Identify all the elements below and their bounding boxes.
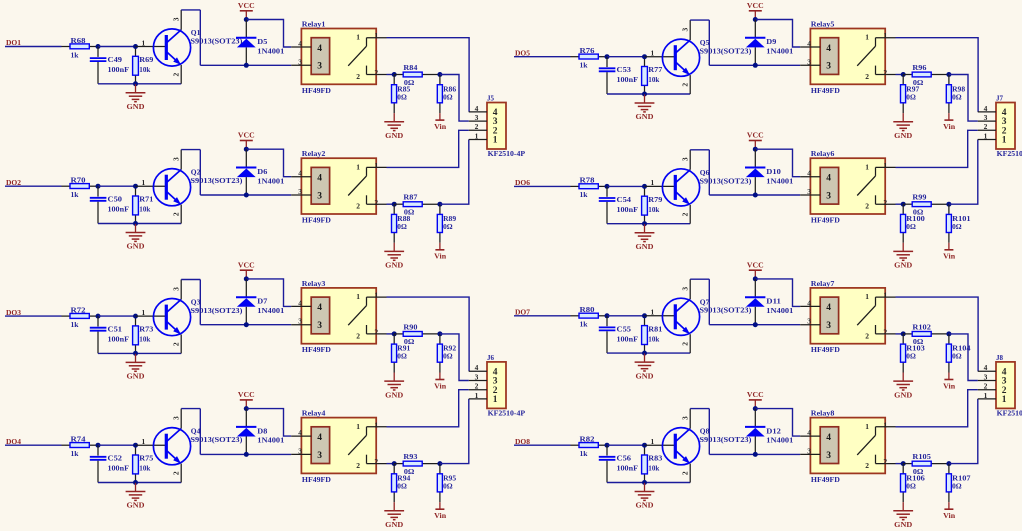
svg-text:D10: D10 (766, 167, 781, 176)
resistor R80 1k (571, 305, 608, 329)
wire Relay1 node B to J5 pin3 (440, 75, 469, 122)
svg-text:GND: GND (385, 131, 403, 140)
svg-text:3: 3 (317, 191, 322, 201)
relay switch blade of Relay8 (857, 435, 875, 455)
pin 3 of Relay8 (800, 446, 820, 455)
junction ground rail (133, 480, 138, 485)
pin 2 of Relay3 (contact) (356, 325, 386, 340)
wire collector of Q6 to relay coil (709, 194, 800, 196)
svg-text:R83: R83 (648, 454, 662, 463)
svg-text:0Ω: 0Ω (443, 222, 453, 231)
svg-text:S9013(SOT23): S9013(SOT23) (699, 306, 752, 315)
pin 2 of J6 (469, 382, 498, 396)
power Vin under R95 (434, 502, 446, 520)
pin 3 of Relay6 (800, 187, 820, 196)
svg-text:10k: 10k (648, 334, 660, 343)
svg-text:0Ω: 0Ω (397, 92, 407, 101)
relay switch blade of Relay3 (348, 306, 366, 326)
junction diode anode node (753, 193, 758, 198)
svg-text:3: 3 (317, 451, 322, 461)
svg-text:D6: D6 (257, 167, 267, 176)
ground under R94 (384, 502, 404, 529)
svg-text:3: 3 (807, 187, 811, 196)
junction node A (392, 331, 397, 336)
svg-text:2: 2 (883, 328, 887, 337)
wire to base node (607, 185, 645, 187)
svg-text:D12: D12 (766, 426, 781, 435)
svg-text:3: 3 (475, 113, 479, 122)
svg-text:1k: 1k (71, 320, 80, 329)
svg-text:HF49FD: HF49FD (302, 216, 331, 225)
svg-text:VCC: VCC (747, 131, 764, 140)
wire Relay7 pin1 to J8 pin4 (896, 297, 979, 371)
pin 1 of Q6 (base) (645, 178, 676, 187)
resistor R101 0R (946, 204, 971, 243)
pin 2 of Q8 (emitter) (680, 464, 690, 483)
svg-text:100nF: 100nF (617, 75, 639, 84)
svg-text:3: 3 (680, 416, 689, 420)
svg-text:C54: C54 (617, 195, 632, 204)
wire collector of Q7 to relay coil (709, 324, 800, 326)
junction base node (133, 443, 138, 448)
capacitor C56 100nF (599, 445, 639, 482)
svg-text:R73: R73 (139, 325, 153, 334)
wire collector vertical of Q7 (708, 279, 710, 325)
svg-text:VCC: VCC (747, 1, 764, 10)
svg-text:2: 2 (356, 202, 360, 211)
svg-text:D11: D11 (766, 297, 781, 306)
relay Relay3 HF49FD (301, 279, 376, 354)
pin 1 of J7 (978, 131, 1007, 145)
ground under R79 (635, 224, 655, 251)
svg-text:2: 2 (356, 461, 360, 470)
svg-text:VCC: VCC (238, 390, 255, 399)
pin 1 of Relay2 (contact) (356, 161, 386, 176)
svg-text:1: 1 (374, 291, 378, 300)
svg-text:1N4001: 1N4001 (766, 176, 793, 185)
svg-text:2: 2 (883, 68, 887, 77)
svg-text:HF49FD: HF49FD (302, 345, 331, 354)
svg-text:1: 1 (142, 308, 146, 317)
junction ground rail (133, 221, 138, 226)
svg-text:Relay1: Relay1 (302, 19, 326, 28)
svg-text:R72: R72 (71, 305, 86, 314)
power Vin under R107 (943, 502, 955, 520)
resistor R89 0R (437, 204, 456, 243)
svg-text:3: 3 (171, 157, 180, 161)
resistor R91 0R (392, 334, 411, 373)
pin 1 of Relay3 (contact) (356, 291, 386, 306)
junction diode anode node (753, 452, 758, 457)
svg-text:3: 3 (298, 187, 302, 196)
svg-text:GND: GND (385, 390, 403, 399)
pin 1 of Q4 (base) (136, 437, 167, 446)
junction ground rail (642, 480, 647, 485)
wire Relay6 pin1 to J7 pin2 (896, 130, 978, 167)
svg-text:Vin: Vin (434, 381, 446, 390)
wire collector of Q8 to relay coil (709, 453, 800, 455)
svg-text:D5: D5 (257, 37, 267, 46)
connector J5 KF2510-4P (487, 94, 526, 159)
wire Relay8 pin2 to R105 (896, 463, 904, 465)
wire collector of Q4 to relay coil (200, 453, 291, 455)
pin 3 of Relay1 (291, 57, 311, 66)
resistor R70 1k (62, 176, 99, 200)
pin 1 of Q3 (base) (136, 308, 167, 317)
resistor R83 10k (642, 445, 663, 482)
svg-text:J5: J5 (487, 94, 494, 103)
svg-text:C56: C56 (617, 454, 632, 463)
junction VCC node (753, 17, 758, 22)
wire collector vertical of Q8 (708, 409, 710, 455)
svg-text:1: 1 (142, 38, 146, 47)
power VCC for Relay2 (238, 131, 255, 150)
svg-text:1: 1 (865, 33, 869, 42)
svg-text:GND: GND (894, 520, 912, 529)
svg-text:GND: GND (894, 390, 912, 399)
svg-text:1: 1 (984, 391, 988, 400)
svg-text:3: 3 (807, 446, 811, 455)
svg-text:0Ω: 0Ω (952, 352, 962, 361)
wire to base node (607, 315, 645, 317)
svg-text:S9013(SOT23): S9013(SOT23) (190, 36, 243, 45)
resistor R74 1k (62, 435, 99, 459)
pin 3 of J6 (469, 372, 498, 386)
wire VCC to Relay1 pin 4 (246, 20, 291, 48)
svg-text:1: 1 (1002, 136, 1007, 146)
relay Relay8 HF49FD (810, 409, 885, 484)
junction node A (901, 331, 906, 336)
transistor Q3 S9013 (153, 298, 243, 336)
resistor R68 1k (62, 36, 99, 60)
svg-text:1N4001: 1N4001 (766, 306, 793, 315)
svg-text:Relay2: Relay2 (302, 149, 326, 158)
junction node B (946, 202, 951, 207)
resistor R90 0R (394, 322, 440, 346)
junction base node (133, 314, 138, 319)
svg-text:GND: GND (127, 501, 145, 510)
transistor Q7 S9013 (662, 297, 752, 335)
junction ground rail (642, 92, 647, 97)
svg-text:1: 1 (374, 420, 378, 429)
svg-text:S9013(SOT23): S9013(SOT23) (190, 306, 243, 315)
power VCC for Relay4 (238, 390, 255, 409)
pin 1 of Relay7 (contact) (865, 291, 895, 306)
resistor R99 0R (903, 193, 949, 217)
wire collector of Q2 to relay coil (200, 194, 291, 196)
wire Relay4 pin1 to J6 pin2 (387, 390, 469, 427)
svg-text:2: 2 (475, 122, 479, 131)
resistor R81 10k (642, 316, 663, 353)
resistor R97 0R (901, 75, 920, 114)
svg-text:R102: R102 (912, 322, 931, 331)
svg-text:1: 1 (651, 437, 655, 446)
pin 2 of Q1 (emitter) (171, 65, 181, 84)
junction diode anode node (753, 322, 758, 327)
junction base node (642, 54, 647, 59)
svg-text:3: 3 (984, 372, 988, 381)
wire Relay7 pin2 to R102 (896, 333, 904, 335)
wire Relay2 pin1 to J5 pin2 (387, 130, 469, 167)
pin 1 of Relay5 (contact) (865, 31, 895, 46)
svg-text:1: 1 (883, 420, 887, 429)
relay switch blade of Relay7 (857, 306, 875, 326)
wire Relay4 pin2 to R93 (387, 463, 395, 465)
svg-text:10k: 10k (139, 205, 151, 214)
diode D11 1N4001 (745, 279, 794, 325)
junction (605, 443, 610, 448)
wire collector top of Q1 (181, 9, 200, 11)
pin 3 of Q1 (collector) (171, 10, 181, 30)
pin 4 of J7 (978, 104, 1007, 118)
svg-text:C50: C50 (108, 195, 123, 204)
svg-text:3: 3 (317, 62, 322, 72)
junction ground rail (642, 351, 647, 356)
capacitor C52 100nF (90, 445, 130, 482)
svg-text:R71: R71 (139, 195, 153, 204)
resistor R77 10k (642, 57, 663, 94)
diode D6 1N4001 (236, 149, 285, 195)
svg-text:10k: 10k (139, 65, 151, 74)
wire VCC to Relay8 pin 4 (755, 409, 800, 437)
svg-text:R80: R80 (580, 305, 595, 314)
svg-text:VCC: VCC (238, 260, 255, 269)
transistor Q2 S9013 (153, 168, 243, 206)
junction ground rail (133, 351, 138, 356)
connector J8 KF2510-4P (996, 353, 1022, 418)
svg-text:R75: R75 (139, 454, 153, 463)
svg-text:D7: D7 (257, 297, 267, 306)
wire to base node (607, 444, 645, 446)
svg-text:0Ω: 0Ω (906, 222, 916, 231)
junction base node (642, 313, 647, 318)
svg-text:1: 1 (493, 395, 498, 405)
capacitor C49 100nF (90, 47, 130, 84)
svg-text:1N4001: 1N4001 (257, 47, 284, 56)
relay switch blade of Relay6 (857, 176, 875, 196)
svg-text:R76: R76 (580, 46, 595, 55)
svg-text:R84: R84 (403, 63, 417, 72)
wire Relay5 pin1 to J7 pin4 (896, 38, 979, 112)
pin 4 of Relay6 (800, 169, 820, 178)
svg-text:1: 1 (374, 161, 378, 170)
svg-text:S9013(SOT23): S9013(SOT23) (699, 176, 752, 185)
resistor R95 0R (437, 464, 456, 503)
relay switch blade of Relay5 (857, 46, 875, 66)
svg-text:R69: R69 (139, 55, 153, 64)
svg-text:2: 2 (374, 457, 378, 466)
junction node B (946, 331, 951, 336)
svg-text:3: 3 (826, 191, 831, 201)
junction (96, 44, 101, 49)
resistor R87 0R (394, 193, 440, 217)
svg-text:Relay4: Relay4 (302, 409, 326, 418)
svg-text:3: 3 (680, 287, 689, 291)
junction node B (437, 72, 442, 77)
relay Relay6 HF49FD (810, 149, 885, 224)
junction node B (437, 202, 442, 207)
junction ground rail (133, 81, 138, 86)
svg-text:2: 2 (374, 328, 378, 337)
svg-text:3: 3 (475, 372, 479, 381)
pin 3 of Relay3 (291, 317, 311, 326)
wire Relay6 node B to J7 pin1 (949, 140, 978, 205)
wire collector top of Q6 (690, 149, 709, 151)
ground under R81 (635, 354, 655, 381)
power VCC for Relay3 (238, 260, 255, 279)
junction node B (946, 72, 951, 77)
svg-text:100nF: 100nF (108, 464, 130, 473)
svg-text:3: 3 (807, 317, 811, 326)
ground under R85 (384, 113, 404, 140)
svg-text:R78: R78 (580, 176, 595, 185)
wire VCC to Relay6 pin 4 (755, 149, 800, 177)
svg-text:J7: J7 (996, 94, 1003, 103)
wire collector top of Q7 (690, 278, 709, 280)
svg-text:4: 4 (298, 428, 302, 437)
svg-text:0Ω: 0Ω (397, 222, 407, 231)
junction VCC node (753, 406, 758, 411)
svg-text:C51: C51 (108, 325, 123, 334)
transistor Q6 S9013 (662, 168, 752, 206)
wire DO7 input (514, 315, 571, 317)
svg-text:4: 4 (826, 44, 831, 54)
svg-text:1: 1 (374, 31, 378, 40)
capacitor C50 100nF (90, 186, 130, 223)
svg-text:1N4001: 1N4001 (766, 47, 793, 56)
junction diode anode node (753, 63, 758, 68)
svg-text:S9013(SOT23): S9013(SOT23) (699, 47, 752, 56)
resistor R75 10k (133, 445, 154, 482)
relay switch blade of Relay2 (348, 176, 366, 196)
svg-text:100nF: 100nF (108, 205, 130, 214)
svg-text:C55: C55 (617, 324, 632, 333)
wire Relay1 pin2 to R84 (387, 74, 395, 76)
svg-text:1k: 1k (580, 61, 589, 70)
svg-text:3: 3 (317, 321, 322, 331)
pin 3 of Relay2 (291, 187, 311, 196)
svg-text:2: 2 (680, 471, 689, 475)
svg-text:J8: J8 (996, 353, 1003, 362)
transistor Q5 S9013 (662, 38, 752, 76)
svg-text:1: 1 (142, 178, 146, 187)
pin 3 of J7 (978, 113, 1007, 127)
resistor R94 0R (392, 464, 411, 503)
junction diode anode node (244, 193, 249, 198)
transistor Q8 S9013 (662, 427, 752, 465)
svg-text:2: 2 (475, 382, 479, 391)
pin 2 of Relay8 (contact) (865, 455, 895, 470)
resistor R84 0R (394, 63, 440, 87)
wire Relay5 pin2 to R96 (896, 74, 904, 76)
svg-text:GND: GND (894, 131, 912, 140)
svg-text:D9: D9 (766, 37, 776, 46)
svg-text:2: 2 (984, 122, 988, 131)
svg-text:KF2510-4P: KF2510-4P (488, 409, 526, 418)
svg-text:S9013(SOT23): S9013(SOT23) (699, 435, 752, 444)
diode D5 1N4001 (236, 20, 285, 66)
svg-text:HF49FD: HF49FD (811, 86, 840, 95)
svg-text:R68: R68 (71, 36, 86, 45)
ground under R97 (893, 113, 913, 140)
svg-text:Relay5: Relay5 (811, 19, 835, 28)
svg-text:2: 2 (984, 382, 988, 391)
svg-text:4: 4 (317, 303, 322, 313)
diode D7 1N4001 (236, 279, 285, 325)
pin 3 of Relay5 (800, 57, 820, 66)
svg-text:C49: C49 (108, 55, 123, 64)
svg-text:0Ω: 0Ω (443, 481, 453, 490)
pin 1 of Relay8 (contact) (865, 420, 895, 435)
svg-text:1: 1 (865, 422, 869, 431)
svg-text:2: 2 (883, 457, 887, 466)
svg-text:D8: D8 (257, 426, 267, 435)
svg-text:J6: J6 (487, 353, 494, 362)
svg-text:0Ω: 0Ω (906, 481, 916, 490)
relay switch blade of Relay4 (348, 435, 366, 455)
wire collector vertical of Q1 (199, 10, 201, 65)
resistor R85 0R (392, 75, 411, 114)
svg-text:3: 3 (807, 57, 811, 66)
wire DO6 input (514, 185, 571, 187)
pin 2 of J7 (978, 122, 1007, 136)
pin 2 of Relay4 (contact) (356, 455, 386, 470)
pin 3 of Q2 (collector) (171, 150, 181, 170)
resistor R82 1k (571, 435, 608, 459)
ground under R83 (635, 483, 655, 510)
svg-text:1k: 1k (580, 190, 589, 199)
svg-text:Vin: Vin (943, 381, 955, 390)
junction base node (642, 184, 647, 189)
pin 2 of Q5 (emitter) (680, 75, 690, 94)
svg-text:4: 4 (317, 44, 322, 54)
svg-text:3: 3 (984, 113, 988, 122)
power Vin under R86 (434, 113, 446, 131)
junction VCC node (244, 406, 249, 411)
svg-text:HF49FD: HF49FD (811, 345, 840, 354)
power VCC for Relay7 (747, 260, 764, 279)
resistor R73 10k (133, 316, 154, 353)
wire collector vertical of Q6 (708, 150, 710, 195)
svg-text:1: 1 (356, 422, 360, 431)
svg-text:10k: 10k (648, 205, 660, 214)
svg-text:3: 3 (298, 57, 302, 66)
junction ground rail (642, 221, 647, 226)
pin 2 of Q3 (emitter) (171, 335, 181, 354)
wire DO8 input (514, 444, 571, 446)
pin 3 of Q3 (collector) (171, 280, 181, 300)
svg-text:1: 1 (356, 162, 360, 171)
wire DO1 input (5, 46, 62, 48)
resistor R105 0R (903, 452, 949, 476)
resistor R93 0R (394, 452, 440, 476)
svg-text:4: 4 (807, 39, 811, 48)
svg-text:0Ω: 0Ω (397, 352, 407, 361)
junction (96, 443, 101, 448)
svg-text:2: 2 (865, 72, 869, 81)
resistor R103 0R (901, 334, 926, 373)
svg-text:2: 2 (171, 72, 180, 76)
svg-text:0Ω: 0Ω (952, 92, 962, 101)
svg-text:HF49FD: HF49FD (302, 475, 331, 484)
resistor R106 0R (901, 464, 926, 503)
resistor R76 1k (571, 46, 608, 70)
pin 3 of J8 (978, 372, 1007, 386)
svg-text:GND: GND (127, 102, 145, 111)
pin 1 of J8 (978, 391, 1007, 405)
svg-text:4: 4 (807, 169, 811, 178)
relay Relay4 HF49FD (301, 409, 376, 484)
